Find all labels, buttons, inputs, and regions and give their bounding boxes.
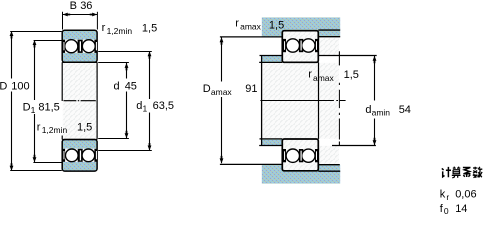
svg-text:D: D: [203, 83, 211, 95]
char shu: [473, 167, 483, 178]
axis centerline left figure: [64, 100, 96, 102]
dimension da vertical line with arrows: [373, 56, 377, 146]
right top ball left: [286, 39, 299, 52]
svg-text:r: r: [235, 18, 239, 30]
svg-text:r: r: [37, 121, 41, 133]
svg-text:B: B: [70, 0, 77, 12]
svg-text:d: d: [114, 80, 120, 92]
dimension d vertical line with arrows: [125, 63, 129, 138]
dimension D1 extension lines: [33, 41, 61, 163]
bottom section top edge: [62, 139, 97, 141]
dimension D vertical line with arrows: [10, 31, 14, 171]
dimension D extension lines: [10, 32, 62, 171]
bore left wall: [61, 62, 63, 139]
svg-text:14: 14: [455, 203, 467, 215]
svg-text:54: 54: [399, 104, 411, 116]
label r 1,2min 1,5 bottom: [37, 121, 93, 135]
svg-text:r: r: [446, 192, 449, 202]
dimension B line with arrows: [63, 13, 97, 17]
char suan: [452, 167, 461, 178]
shaft shoulder top-left: [259, 56, 282, 63]
top section cage slits: [63, 41, 97, 51]
axis centerline right figure: [260, 100, 345, 102]
right bottom cage slits: [284, 151, 317, 161]
bottom bearing of right figure: [282, 139, 318, 171]
dimension D1 vertical line with arrows: [33, 40, 37, 162]
dimension d extension lines: [98, 63, 129, 139]
label D 100: [0, 81, 30, 93]
bore right wall: [96, 62, 98, 139]
svg-text:1,2min: 1,2min: [42, 125, 68, 135]
hatch right of bottom bearing: [319, 146, 339, 164]
label Da max 91: [203, 83, 258, 97]
svg-text:1,5: 1,5: [269, 19, 284, 31]
heading calculation factors (CJK drawn as strokes): [442, 167, 483, 178]
right bottom ball left: [286, 149, 299, 162]
svg-text:amax: amax: [240, 22, 262, 32]
label D1 81,5: [23, 101, 60, 115]
shaft left face: [261, 56, 263, 146]
label d1 63,5: [136, 100, 174, 114]
svg-text:d: d: [136, 100, 142, 112]
svg-text:63,5: 63,5: [153, 100, 174, 112]
svg-text:1: 1: [31, 105, 36, 115]
dimension d1 extension lines: [98, 52, 152, 151]
label f0 14: [440, 203, 468, 216]
top section cage gaps: [62, 40, 97, 53]
svg-text:81,5: 81,5: [38, 101, 59, 113]
svg-text:91: 91: [245, 83, 257, 95]
svg-text:amax: amax: [313, 73, 335, 83]
housing top band: [262, 17, 340, 36]
label ra max 1,5 top-left: [235, 18, 284, 32]
shaft middle hatch area: [262, 63, 339, 139]
bottom section ball left: [65, 149, 78, 162]
bearing seat side face line: [318, 62, 320, 139]
svg-text:D: D: [23, 101, 31, 113]
svg-text:1,5: 1,5: [344, 69, 359, 81]
shaft shoulder bottom-left: [259, 139, 282, 146]
svg-text:1,5: 1,5: [142, 22, 157, 34]
svg-text:0,06: 0,06: [455, 189, 476, 201]
svg-text:1: 1: [143, 103, 148, 113]
label d 45: [114, 80, 137, 92]
dimension B extension lines: [63, 12, 98, 30]
label B 36: [70, 0, 93, 12]
label ra max 1,5 middle: [308, 68, 359, 83]
top section ball left: [65, 40, 78, 53]
svg-text:amax: amax: [211, 87, 233, 97]
shaft end line: [338, 51, 340, 145]
housing bore line right of top bearing: [318, 29, 340, 31]
label r 1,2min 1,5 top: [102, 22, 158, 36]
svg-text:0: 0: [444, 206, 449, 216]
bottom bearing section body: [62, 140, 97, 172]
housing bore line right of bottom bearing: [318, 170, 340, 172]
bottom section ball right: [82, 149, 95, 162]
right bottom cage gaps: [283, 149, 318, 162]
bottom section cage slits: [63, 150, 97, 160]
svg-text:1,2min: 1,2min: [107, 26, 133, 36]
right top ball right: [302, 39, 315, 52]
svg-text:k: k: [440, 189, 446, 201]
top bearing section body: [62, 30, 97, 62]
housing bottom top edge right: [318, 164, 340, 166]
svg-text:36: 36: [80, 0, 92, 12]
svg-text:d: d: [365, 104, 371, 116]
svg-text:1,5: 1,5: [77, 121, 92, 133]
bottom section cage gaps: [62, 149, 97, 162]
right bottom ball right: [302, 149, 315, 162]
dimension Da vertical line with arrows: [220, 37, 224, 163]
housing top bottom edge right: [318, 36, 340, 38]
bore hatch area: [63, 63, 97, 139]
shaft shoulder top-right surface line + da ext: [317, 55, 377, 57]
svg-text:100: 100: [11, 81, 29, 93]
right top cage slits: [284, 41, 317, 51]
housing bottom band: [262, 165, 340, 184]
char ji: [442, 167, 451, 177]
housing bottom top edge left: [220, 163, 282, 165]
char xi: [463, 168, 471, 178]
label da min 54: [365, 104, 411, 118]
top bearing of right figure: [282, 31, 318, 63]
svg-text:amin: amin: [372, 108, 391, 118]
label kr 0,06: [440, 189, 477, 202]
top section bottom edge: [62, 61, 97, 63]
top section ball right: [82, 40, 95, 53]
hatch right of top bearing: [319, 38, 339, 56]
dimension d1 vertical line with arrows: [148, 51, 152, 150]
svg-text:r: r: [308, 68, 312, 80]
housing top bottom edge left: [220, 36, 282, 38]
svg-text:D: D: [0, 81, 7, 93]
svg-text:45: 45: [125, 80, 137, 92]
shaft shoulder bottom-right surface line + da ext: [332, 145, 376, 147]
svg-text:r: r: [102, 22, 106, 34]
right top cage gaps: [283, 39, 318, 52]
